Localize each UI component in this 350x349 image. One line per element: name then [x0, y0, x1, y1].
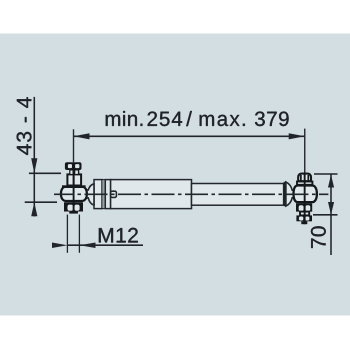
- washer / stud: [300, 212, 309, 216]
- dimension line 43-4: [25, 97, 61, 217]
- right bell cone: [286, 182, 295, 206]
- dimension 70 label (rotated): [311, 226, 326, 248]
- ball housing: [61, 187, 87, 201]
- gray band: [102, 180, 106, 209]
- 70 dimension line, arrows, ticks: [313, 174, 338, 255]
- dome flange: [297, 182, 312, 185]
- right end cap: [284, 182, 286, 206]
- shoulder band: [62, 185, 86, 188]
- lower stub: [301, 221, 307, 224]
- ball housing: [294, 186, 317, 203]
- lower hex nut: [296, 203, 312, 211]
- neck collar: [69, 170, 79, 174]
- lower stub: [69, 212, 78, 214]
- dimension M12 label: [99, 228, 138, 243]
- main horizontal centerline: [54, 193, 328, 195]
- top nut: [65, 162, 82, 170]
- lower hex nut: [64, 202, 83, 211]
- right extension line: [304, 129, 306, 173]
- small nipple on centerline: [111, 191, 117, 197]
- inner (thin) tube: [192, 184, 284, 206]
- dome nut: [298, 174, 311, 182]
- collar ring left: [94, 180, 102, 209]
- left bell cone: [86, 184, 95, 205]
- main outer tube: [111, 180, 192, 209]
- bottom nut: [296, 215, 312, 221]
- M12 extension lines: [66, 215, 68, 253]
- collar ring 2: [105, 180, 110, 209]
- M12 dimension line and arrows: [52, 215, 143, 253]
- fitting vertical centerline: [73, 163, 75, 212]
- left extension line: [73, 129, 75, 162]
- dimension 43 - 4 label (rotated): [17, 97, 32, 155]
- dimension line min/max: [74, 133, 305, 139]
- dimension min. 254 / max. 379 label: [106, 111, 289, 126]
- stud: [67, 174, 81, 185]
- fitting vertical centerline: [304, 173, 306, 224]
